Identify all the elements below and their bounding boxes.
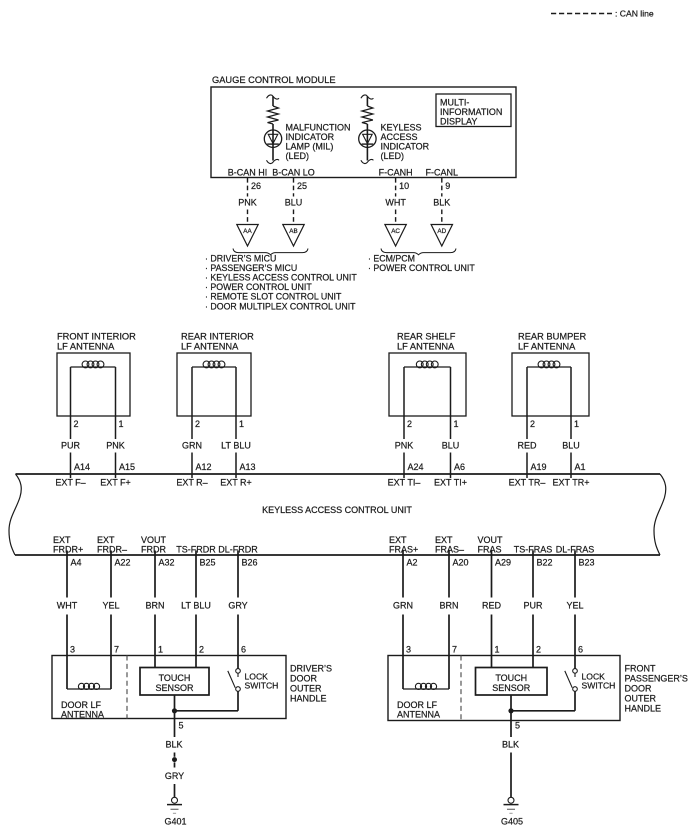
wire PNK CAN (dashed) from pin 26 to connector AA — [247, 178, 249, 225]
svg-text:B-CAN HI: B-CAN HI — [228, 168, 268, 178]
svg-text:PNK: PNK — [395, 441, 414, 451]
svg-text:ANTENNA: ANTENNA — [397, 710, 440, 720]
wire color RED — [482, 601, 502, 611]
svg-text:B25: B25 — [200, 558, 216, 568]
destination list for AA/AB — [205, 254, 357, 312]
svg-text:3: 3 — [406, 645, 411, 655]
net labels B-CAN HI / B-CAN LO / F-CANH / F-CANL — [228, 168, 458, 178]
svg-text:2: 2 — [407, 419, 412, 429]
wire color PUR — [61, 441, 81, 451]
svg-text:B22: B22 — [537, 558, 553, 568]
svg-text:A15: A15 — [119, 462, 135, 472]
svg-text:AA: AA — [243, 228, 252, 235]
dashed separator inside handle — [126, 656, 128, 719]
svg-text:MULTI-: MULTI- — [440, 98, 469, 108]
pin number 2 — [530, 419, 535, 429]
svg-text:A29: A29 — [495, 558, 511, 568]
FRONT INTERIOR LF antenna (box) — [57, 332, 136, 417]
svg-text:B26: B26 — [242, 558, 258, 568]
wire PNK pin 1 of FRONT INTERIOR antenna — [115, 367, 117, 478]
destination list for AC/AD — [368, 254, 475, 274]
label keyless access indicator LED — [381, 123, 430, 162]
net label EXT/FRAS- — [435, 535, 464, 555]
multi-information display (box) — [436, 94, 511, 127]
connector pin A29 — [495, 558, 511, 568]
label door LF antenna — [397, 700, 440, 720]
wire color label BLU — [285, 198, 303, 208]
svg-text:A4: A4 — [71, 558, 82, 568]
net label VOUT/FRAS — [478, 535, 504, 555]
svg-text:AD: AD — [437, 228, 446, 235]
net label EXT TI+ — [434, 478, 467, 488]
wire LT BLU from B25 to handle pin 2 — [195, 551, 197, 656]
connector triangle AA — [237, 225, 258, 247]
svg-text:EXT F–: EXT F– — [55, 478, 85, 488]
wire color label WHT — [385, 198, 406, 208]
keyless access control unit (band with torn edges) — [9, 474, 666, 555]
pin 26 — [251, 181, 261, 191]
wire LT BLU pin 1 of REAR INTERIOR antenna — [235, 367, 237, 478]
svg-text:EXT TI+: EXT TI+ — [434, 478, 467, 488]
svg-text:BLK: BLK — [502, 740, 519, 750]
svg-text:9: 9 — [445, 181, 450, 191]
connector pin A19 — [531, 462, 547, 472]
lock switch — [175, 656, 241, 711]
wire GRN from A2 to handle pin 3 — [402, 551, 404, 656]
svg-text:EXT TR–: EXT TR– — [509, 478, 546, 488]
REAR SHELF LF antenna (box) — [389, 332, 466, 417]
svg-text:BRN: BRN — [439, 601, 458, 611]
wire color WHT — [57, 601, 78, 611]
svg-text:FRDR: FRDR — [141, 545, 166, 555]
svg-text:6: 6 — [578, 645, 583, 655]
net label EXT/FRDR- — [97, 535, 127, 555]
wire color GRY — [228, 601, 247, 611]
wire color BRN — [145, 601, 164, 611]
svg-text:OUTER: OUTER — [290, 684, 322, 694]
door outer handle assembly (box) — [388, 656, 620, 721]
svg-text:MALFUNCTION: MALFUNCTION — [286, 123, 351, 133]
connector pin B22 — [537, 558, 553, 568]
svg-text:HANDLE: HANDLE — [625, 704, 662, 714]
svg-text:DOOR: DOOR — [625, 684, 653, 694]
REAR BUMPER LF antenna (box) — [512, 332, 589, 417]
svg-text:2: 2 — [530, 419, 535, 429]
svg-text:5: 5 — [515, 721, 520, 731]
inductor coil of REAR BUMPER antenna — [527, 361, 571, 368]
handle pin number 7 — [114, 645, 119, 655]
connector pin B23 — [579, 558, 595, 568]
handle pin number 1 — [495, 645, 500, 655]
svg-text:· REMOTE SLOT CONTROL UNIT: · REMOTE SLOT CONTROL UNIT — [205, 292, 342, 302]
wire color BRN — [439, 601, 458, 611]
inductor coil of REAR SHELF antenna — [404, 361, 451, 368]
pin number 1 — [119, 419, 124, 429]
wire YEL from B23 to handle pin 6 — [574, 551, 576, 656]
svg-text:1: 1 — [158, 645, 163, 655]
handle pin number 2 — [536, 645, 541, 655]
svg-text:LF ANTENNA: LF ANTENNA — [181, 342, 239, 352]
net label EXT F– — [55, 478, 85, 488]
dashed separator inside handle — [460, 656, 462, 721]
wire color BLK — [165, 740, 182, 750]
svg-text:ACCESS: ACCESS — [381, 132, 418, 142]
wire color PNK — [106, 441, 125, 451]
svg-text:KEYLESS: KEYLESS — [381, 123, 422, 133]
wire WHT CAN (dashed) from pin 10 to connector AC — [395, 178, 397, 225]
pin number 5 — [515, 721, 520, 731]
svg-text:5: 5 — [179, 721, 184, 731]
svg-text:B23: B23 — [579, 558, 595, 568]
wire PUR pin 2 of FRONT INTERIOR antenna — [70, 367, 72, 478]
svg-text:FRONT: FRONT — [625, 664, 656, 674]
svg-text:GRN: GRN — [393, 601, 413, 611]
wire color GRN — [182, 441, 202, 451]
svg-text:FRAS: FRAS — [478, 545, 502, 555]
wire PNK pin 2 of REAR SHELF antenna — [403, 367, 405, 478]
wire color GRN — [393, 601, 413, 611]
gauge control module U1 (box) — [211, 75, 516, 178]
svg-text:EXT R+: EXT R+ — [220, 478, 252, 488]
svg-text:PUR: PUR — [523, 601, 543, 611]
svg-text:25: 25 — [297, 181, 307, 191]
svg-text:A13: A13 — [240, 462, 256, 472]
svg-text:LF ANTENNA: LF ANTENNA — [397, 342, 455, 352]
svg-text:10: 10 — [399, 181, 409, 191]
net label EXT/FRDR+ — [53, 535, 83, 555]
svg-text:EXT: EXT — [97, 535, 115, 545]
wire YEL from A22 to handle pin 7 — [110, 551, 112, 656]
ground G401 — [164, 797, 186, 826]
pin number 1 — [239, 419, 244, 429]
svg-text:DRIVER’S: DRIVER’S — [290, 664, 332, 674]
svg-text:BLU: BLU — [442, 441, 460, 451]
svg-text:FRDR–: FRDR– — [97, 545, 127, 555]
svg-text:7: 7 — [452, 645, 457, 655]
junction node (touch sensor / lock switch common) — [172, 708, 177, 713]
svg-text:ANTENNA: ANTENNA — [61, 710, 104, 720]
door LF antenna coil — [67, 656, 111, 690]
label lock switch — [582, 672, 616, 691]
svg-text:26: 26 — [251, 181, 261, 191]
svg-text:A19: A19 — [531, 462, 547, 472]
svg-text:DOOR: DOOR — [290, 674, 318, 684]
svg-text:DOOR LF: DOOR LF — [61, 700, 102, 710]
svg-text:LF ANTENNA: LF ANTENNA — [518, 342, 576, 352]
svg-text:SWITCH: SWITCH — [582, 681, 616, 691]
wire pin 5 to ground — [510, 695, 512, 797]
svg-text:A32: A32 — [159, 558, 175, 568]
wire WHT from A4 to handle pin 3 — [66, 551, 68, 656]
svg-text:G405: G405 — [501, 817, 523, 827]
svg-text:(LED): (LED) — [381, 151, 405, 161]
svg-text:1: 1 — [495, 645, 500, 655]
svg-text:· POWER CONTROL UNIT: · POWER CONTROL UNIT — [368, 263, 475, 273]
connector triangle AD — [431, 225, 452, 247]
svg-text:EXT: EXT — [389, 535, 407, 545]
svg-text:2: 2 — [74, 419, 79, 429]
resistor + LED: keyless access indicator — [359, 95, 376, 164]
wire color YEL — [102, 601, 119, 611]
svg-text:· POWER CONTROL UNIT: · POWER CONTROL UNIT — [205, 282, 312, 292]
svg-text:A14: A14 — [74, 462, 90, 472]
svg-text:· DOOR MULTIPLEX CONTROL UNIT: · DOOR MULTIPLEX CONTROL UNIT — [205, 301, 356, 311]
svg-text:· DRIVER’S MICU: · DRIVER’S MICU — [205, 254, 276, 264]
wire color BLU — [562, 441, 580, 451]
wire touch sensor pin 2 — [195, 656, 197, 668]
pin number 2 — [195, 419, 200, 429]
svg-text:PUR: PUR — [61, 441, 81, 451]
connector triangle AC — [385, 225, 406, 247]
svg-text:: CAN line: : CAN line — [615, 9, 654, 19]
svg-text:INDICATOR: INDICATOR — [381, 142, 430, 152]
svg-text:2: 2 — [199, 645, 204, 655]
svg-text:EXT: EXT — [53, 535, 71, 545]
svg-text:1: 1 — [574, 419, 579, 429]
ground G405 — [501, 797, 523, 826]
svg-text:BLK: BLK — [433, 198, 450, 208]
svg-text:PNK: PNK — [106, 441, 125, 451]
svg-text:DOOR LF: DOOR LF — [397, 700, 438, 710]
connector pin A4 — [71, 558, 82, 568]
svg-text:BLU: BLU — [562, 441, 580, 451]
wire BLU pin 1 of REAR BUMPER antenna — [570, 367, 572, 478]
net label EXT F+ — [100, 478, 131, 488]
wire color PNK — [395, 441, 414, 451]
wire BRN from A32 to handle pin 1 — [154, 551, 156, 656]
connector pin A12 — [196, 462, 212, 472]
svg-text:1: 1 — [119, 419, 124, 429]
svg-text:VOUT: VOUT — [141, 535, 167, 545]
touch sensor (box) — [476, 668, 548, 696]
junction node (touch sensor / lock switch common) — [508, 708, 513, 713]
svg-text:SENSOR: SENSOR — [492, 683, 531, 693]
svg-text:RED: RED — [482, 601, 502, 611]
wire color label BLK — [433, 198, 450, 208]
handle pin number 7 — [452, 645, 457, 655]
touch sensor (box) — [140, 668, 209, 696]
net label DL-FRDR — [218, 545, 258, 555]
wire color label PNK — [238, 198, 257, 208]
svg-text:HANDLE: HANDLE — [290, 694, 327, 704]
wire PUR from B22 to handle pin 2 — [532, 551, 534, 656]
svg-text:LT BLU: LT BLU — [221, 441, 251, 451]
legend: CAN line dashed sample — [551, 9, 654, 19]
connector pin A13 — [240, 462, 256, 472]
brace under connectors AA AB — [233, 249, 308, 255]
pin number 1 — [454, 419, 459, 429]
connector pin A32 — [159, 558, 175, 568]
svg-text:EXT TR+: EXT TR+ — [553, 478, 590, 488]
svg-text:FRDR+: FRDR+ — [53, 545, 83, 555]
svg-text:REAR INTERIOR: REAR INTERIOR — [181, 332, 254, 342]
svg-text:EXT F+: EXT F+ — [100, 478, 131, 488]
label door handle location — [625, 664, 688, 714]
svg-text:LT BLU: LT BLU — [181, 601, 211, 611]
svg-text:1: 1 — [239, 419, 244, 429]
svg-text:INFORMATION: INFORMATION — [440, 107, 502, 117]
net label TS-FRAS — [514, 545, 553, 555]
svg-text:TOUCH: TOUCH — [159, 673, 191, 683]
label MIL LED — [286, 123, 351, 162]
label door handle location — [290, 664, 332, 704]
svg-text:EXT R–: EXT R– — [176, 478, 207, 488]
svg-text:SWITCH: SWITCH — [245, 681, 279, 691]
svg-text:LAMP (MIL): LAMP (MIL) — [286, 142, 334, 152]
wire color LT BLU — [221, 441, 251, 451]
wire color BLU — [442, 441, 460, 451]
net label EXT TI– — [388, 478, 421, 488]
pin 25 — [297, 181, 307, 191]
resistor + LED: malfunction indicator lamp (MIL) — [264, 95, 281, 164]
svg-text:G401: G401 — [164, 817, 186, 827]
door LF antenna coil — [403, 656, 449, 690]
svg-text:· KEYLESS ACCESS CONTROL UNIT: · KEYLESS ACCESS CONTROL UNIT — [205, 273, 357, 283]
wire RED from A29 to handle pin 1 — [491, 551, 493, 656]
wire touch sensor pin 2 — [532, 656, 534, 668]
svg-text:TOUCH: TOUCH — [495, 673, 527, 683]
wire touch sensor pin 1 — [154, 656, 156, 668]
svg-text:· PASSENGER’S MICU: · PASSENGER’S MICU — [205, 263, 297, 273]
svg-text:PASSENGER’S: PASSENGER’S — [625, 674, 688, 684]
svg-text:AC: AC — [391, 228, 400, 235]
handle pin number 3 — [70, 645, 75, 655]
svg-text:LF ANTENNA: LF ANTENNA — [57, 342, 115, 352]
connector pin A2 — [407, 558, 418, 568]
net label EXT TR+ — [553, 478, 590, 488]
pin 9 — [445, 181, 450, 191]
wire BLU pin 1 of REAR SHELF antenna — [450, 367, 452, 478]
svg-text:OUTER: OUTER — [625, 694, 657, 704]
brace under connectors AC AD — [381, 249, 456, 255]
connector pin A6 — [454, 462, 465, 472]
pin 10 — [399, 181, 409, 191]
svg-text:A2: A2 — [407, 558, 418, 568]
wire color BLK — [502, 740, 519, 750]
connector pin A1 — [575, 462, 586, 472]
svg-text:BLK: BLK — [165, 740, 182, 750]
svg-text:GRY: GRY — [165, 771, 184, 781]
svg-text:WHT: WHT — [385, 198, 406, 208]
svg-text:SENSOR: SENSOR — [155, 683, 194, 693]
svg-text:VOUT: VOUT — [478, 535, 504, 545]
wire BLK CAN (dashed) from pin 9 to connector AD — [441, 178, 443, 225]
pin number 2 — [74, 419, 79, 429]
wire GRY from B26 to handle pin 6 — [237, 551, 239, 656]
wire BRN from A20 to handle pin 7 — [448, 551, 450, 656]
label lock switch — [245, 672, 279, 691]
svg-text:A6: A6 — [454, 462, 465, 472]
svg-text:2: 2 — [195, 419, 200, 429]
pin number 2 — [407, 419, 412, 429]
net label EXT/FRAS+ — [389, 535, 418, 555]
svg-text:7: 7 — [114, 645, 119, 655]
svg-text:FRONT INTERIOR: FRONT INTERIOR — [57, 332, 136, 342]
svg-text:BRN: BRN — [145, 601, 164, 611]
svg-text:INDICATOR: INDICATOR — [286, 132, 335, 142]
svg-text:B-CAN LO: B-CAN LO — [272, 168, 315, 178]
svg-text:A1: A1 — [575, 462, 586, 472]
svg-text:GAUGE CONTROL MODULE: GAUGE CONTROL MODULE — [212, 75, 336, 85]
inductor coil of FRONT INTERIOR antenna — [71, 361, 116, 368]
REAR INTERIOR LF antenna (box) — [177, 332, 254, 417]
net label EXT R+ — [220, 478, 252, 488]
wire color RED — [517, 441, 537, 451]
svg-text:PNK: PNK — [238, 198, 257, 208]
svg-text:GRN: GRN — [182, 441, 202, 451]
connector pin A14 — [74, 462, 90, 472]
connector triangle AB — [283, 225, 304, 247]
svg-text:A12: A12 — [196, 462, 212, 472]
svg-text:F-CANL: F-CANL — [426, 168, 459, 178]
svg-text:DISPLAY: DISPLAY — [440, 117, 477, 127]
svg-text:3: 3 — [70, 645, 75, 655]
connector pin B25 — [200, 558, 216, 568]
label door LF antenna — [61, 700, 104, 720]
svg-text:A24: A24 — [408, 462, 424, 472]
svg-text:6: 6 — [241, 645, 246, 655]
svg-text:REAR BUMPER: REAR BUMPER — [518, 332, 586, 342]
wire color YEL — [566, 601, 583, 611]
svg-text:GRY: GRY — [228, 601, 247, 611]
net label EXT TR– — [509, 478, 546, 488]
net label VOUT/FRDR — [141, 535, 167, 555]
net label DL-FRAS — [556, 545, 595, 555]
svg-text:WHT: WHT — [57, 601, 78, 611]
wire pin 5 to ground — [172, 695, 177, 797]
wire color LT BLU — [181, 601, 211, 611]
wire color PUR — [523, 601, 543, 611]
svg-text:(LED): (LED) — [286, 151, 310, 161]
wire GRN pin 2 of REAR INTERIOR antenna — [191, 367, 193, 478]
wire touch sensor pin 1 — [491, 656, 493, 668]
svg-text:YEL: YEL — [566, 601, 583, 611]
net label TS-FRDR — [176, 545, 216, 555]
svg-text:RED: RED — [517, 441, 537, 451]
connector pin A22 — [115, 558, 131, 568]
svg-text:AB: AB — [289, 228, 297, 235]
handle pin number 1 — [158, 645, 163, 655]
wire color GRY — [165, 771, 184, 781]
svg-text:F-CANH: F-CANH — [379, 168, 413, 178]
svg-text:· ECM/PCM: · ECM/PCM — [368, 254, 415, 264]
wire BLU CAN (dashed) from pin 25 to connector AB — [293, 178, 295, 225]
door outer handle assembly (box) — [52, 656, 286, 719]
connector pin A15 — [119, 462, 135, 472]
svg-text:A20: A20 — [453, 558, 469, 568]
svg-text:EXT TI–: EXT TI– — [388, 478, 421, 488]
handle pin number 6 — [578, 645, 583, 655]
lock switch — [511, 656, 577, 711]
svg-text:A22: A22 — [115, 558, 131, 568]
handle pin number 6 — [241, 645, 246, 655]
inductor coil of REAR INTERIOR antenna — [192, 361, 236, 368]
handle pin number 2 — [199, 645, 204, 655]
connector pin B26 — [242, 558, 258, 568]
svg-text:REAR SHELF: REAR SHELF — [397, 332, 456, 342]
pin number 1 — [574, 419, 579, 429]
svg-text:KEYLESS ACCESS CONTROL UNIT: KEYLESS ACCESS CONTROL UNIT — [262, 505, 412, 515]
handle pin number 3 — [406, 645, 411, 655]
svg-text:BLU: BLU — [285, 198, 303, 208]
connector pin A20 — [453, 558, 469, 568]
pin number 5 — [179, 721, 184, 731]
connector pin A24 — [408, 462, 424, 472]
svg-text:EXT: EXT — [435, 535, 453, 545]
svg-text:YEL: YEL — [102, 601, 119, 611]
svg-text:2: 2 — [536, 645, 541, 655]
wire RED pin 2 of REAR BUMPER antenna — [526, 367, 528, 478]
